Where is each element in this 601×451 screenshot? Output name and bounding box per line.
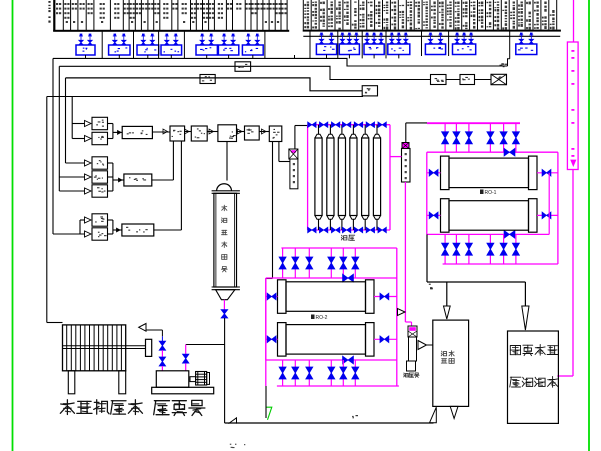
RO2 left frame to bottom [265,278,267,386]
dosing box D5 [92,185,108,197]
pump coupling [190,377,196,382]
UF membrane tube 5 [364,125,366,135]
RO-1 label [480,190,484,195]
table T2 column text [307,2,309,3]
RO-2 label [311,315,315,320]
UF label [341,235,344,236]
border line green left [12,0,14,451]
filter drain valve [223,300,225,310]
RO-1 big valve top [504,148,515,156]
border line green right [588,0,590,451]
dosing box D4 [92,171,108,183]
bottom drain line [225,422,434,424]
pump label [154,400,169,402]
RO-2 vessel A side valves [266,296,278,298]
reuse water tank [508,331,559,423]
RO-2 frame [266,277,397,279]
concentrate tank label [441,351,444,352]
dosing outlet lines [108,123,113,125]
chain to UF feed line [278,142,280,162]
blue box R1 [316,44,336,55]
blue box L5 [196,45,217,55]
blue box L4 [161,45,182,55]
chain to B2 connection [172,141,174,180]
sludge pump motor [196,372,207,386]
chain unit box U1 [170,126,185,141]
UF frame [307,125,309,230]
chain to B3 connection [180,141,182,230]
antiscalant label [403,373,406,374]
dosing box D3 [92,157,108,169]
multimedia filter vessel [217,184,232,191]
blue box R3 [364,44,384,55]
left manifold drop lines [52,58,54,234]
RO-2 big valve top [343,274,354,282]
check valve of D7 [85,231,92,237]
pump base plate [152,387,214,394]
blue box R4 [388,44,410,55]
RO-1 bottom header [443,263,558,265]
RO-1 vessel B side valves [427,214,441,216]
header line B [59,66,430,79]
branch to concentrate tank [446,282,448,306]
RO1 drain line L-path [426,234,428,282]
small label on drain line [430,287,433,288]
press feed line [47,322,63,324]
RO feed instrument body [402,149,411,183]
reuse tank label line2 [510,376,521,378]
dosing box D6 [92,214,108,226]
chain unit box U4 [245,126,260,140]
RO1 feed header [405,123,407,143]
drain flag on permeate line [398,309,406,316]
RO feed instrument cap [402,143,409,149]
RO-1 membrane vessel A [441,156,450,190]
RO-1 frame [427,151,558,153]
blue box R5 [425,44,445,55]
RO-1 right frame line [557,152,559,264]
flag into concentrate tank [418,341,427,350]
check valve of D5 [85,188,92,194]
check valve of D6 [85,217,92,223]
blue box L1 [76,45,95,55]
press head plate [146,339,152,356]
RO2 drain drop [265,386,267,418]
magenta instruction box [567,42,578,170]
concentrate tank bottom arrow [450,406,458,418]
press label [66,400,68,415]
header line D [47,96,363,98]
check valve of D4 [85,174,92,180]
UF membrane tube 4 [352,125,354,135]
table T2 under-line [303,35,560,37]
label M on header A [500,65,503,66]
RO-2 bottom header [277,385,399,387]
pump box B3 [122,224,154,236]
UF bottom valve row [308,227,317,233]
press feed arrow [139,324,146,332]
sludge valve column 1 [161,330,163,336]
UF feed drop to RO2 from unit U5 [272,142,274,279]
blue box L7 [242,45,263,55]
filter vessel label text [223,205,225,211]
RO-1 membrane vessel B [441,199,450,233]
RO-2 bottom valve stubs [282,360,284,386]
antiscalant instrument [408,326,417,337]
blue box R7 [516,44,537,55]
hook arrow into tank bottom [430,407,437,423]
svg-text:RO-1: RO-1 [485,190,497,196]
vertical label text left of T1 [48,1,50,3]
UF permeate line [390,156,402,158]
RO-1 vessel A side valves [427,172,441,174]
dosing box D2 [92,132,108,144]
blue box L2 [109,45,130,55]
UF membrane tube 1 [318,125,320,135]
dosing box D1 [92,117,108,129]
RO-1 big valve bottom [504,230,515,238]
end box on header C [362,86,377,96]
RO-2 top valve stubs [282,248,284,278]
bottom tiny title text [230,444,232,445]
header line A [53,58,508,66]
RO-1 bottom valve stubs [444,234,446,264]
sludge pump body [156,371,189,388]
magenta riser top [573,0,575,42]
magenta arrow in box [571,160,576,166]
green drain flag [266,407,272,420]
concentrate tank [433,320,469,406]
dosing box D7 [92,228,108,240]
chain to filter vessel connection [226,142,228,181]
RO2 right frame [396,248,398,386]
small label on drain line [356,415,359,416]
RO-2 membrane vessel B [278,323,287,357]
drop line with jog to header A [509,32,511,59]
pump box B2 [124,174,152,186]
RO-1 top header [427,123,520,125]
table T1 column text [56,3,58,5]
instrument box row on header B right [431,75,447,85]
blue box L3 [137,45,159,55]
reuse tank label line1 [510,346,520,355]
check valve of D2 [85,136,92,142]
instrument box on header B [235,62,251,72]
magenta riser bottom [572,170,574,377]
UF top valve row [308,122,317,128]
instrument box on header C [200,75,215,84]
hook arrow on drain line [229,418,237,424]
blue box L6 [218,45,238,55]
table T2 legend columns [302,0,304,30]
chain unit box U3 [218,125,237,142]
UF membrane tube 6 [376,125,378,135]
check valve of D1 [85,121,92,127]
RO-1 top valve stubs [444,124,446,153]
arrow into reuse tank [522,306,529,330]
blue box R6 [453,44,476,55]
UF feed dosing valve [289,149,298,159]
chain unit box U2 [191,126,207,141]
plate filter press [63,325,126,371]
blue box R2 [339,44,359,55]
RO-2 membrane vessel A [278,280,287,314]
line to antiscalant instrument [405,321,411,323]
UF membrane tube 2 [329,125,331,135]
chain line [152,131,170,133]
instrument outlet line down [404,182,406,322]
chain unit box U5 [269,126,282,142]
UF feed instrument body [290,159,298,189]
pump box B1 [122,126,152,138]
separator drop lines from tables [101,32,103,59]
table T1 legend columns [53,0,55,32]
RO-2 top header [281,247,396,249]
press legs [68,371,75,394]
UF membrane tube 3 [341,125,343,135]
flow arrows on chain [163,129,168,134]
RO-1 permeate collector [548,173,550,235]
RO-2 vessel B side valves [266,338,278,340]
dosing feed lines [72,123,85,125]
sludge valve column 2 [186,344,225,346]
check valve of D3 [85,160,92,166]
svg-text:RO-2: RO-2 [316,315,328,321]
header line C [66,78,363,91]
RO-2 big valve bottom [343,356,354,364]
